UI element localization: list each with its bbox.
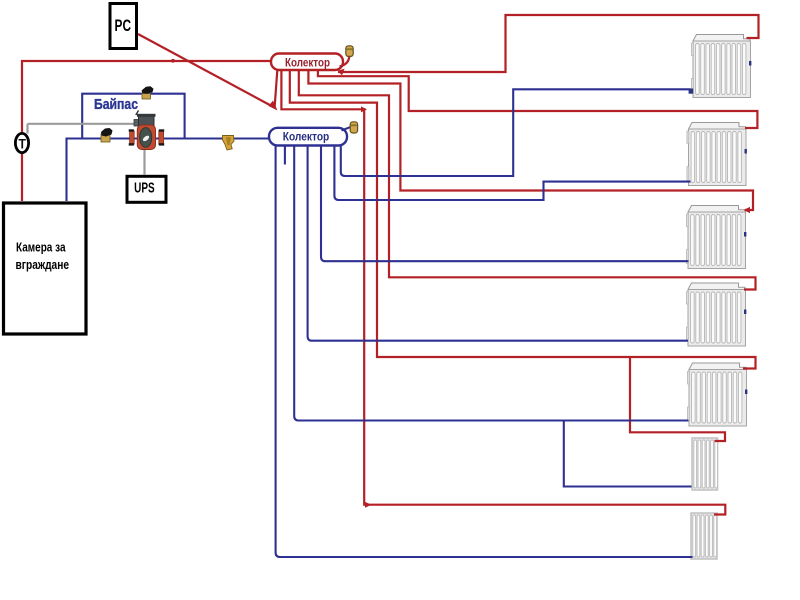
wire red feed 3 to RAD3 [308, 69, 753, 210]
svg-text:вграждане: вграждане [16, 257, 70, 272]
valve V1 black on main line [101, 128, 113, 142]
valve brass strainer [223, 136, 235, 151]
svg-text:Камера за: Камера за [16, 239, 66, 254]
wire blue return RAD1 [341, 89, 691, 176]
wire blue branch return RAD6 [564, 421, 692, 487]
label bypass [136, 111, 139, 116]
wire red feed 2 to RAD2 [318, 69, 758, 128]
wire blue return RAD3 [321, 146, 689, 262]
sensor T (thermostat) [15, 133, 28, 152]
wire blue spare stub [284, 146, 286, 165]
wire blue return RAD4 [308, 146, 688, 341]
wire grey pump to UPS cable [143, 150, 145, 175]
svg-text:Колектор: Колектор [283, 129, 330, 143]
wire red PC control line (diagonal) [138, 34, 274, 107]
valve V2 black on bypass [142, 86, 154, 99]
wire blue main pipe from boiler to collector [67, 139, 269, 202]
wire blue hook to vent valve [342, 127, 352, 131]
svg-text:Колектор: Колектор [285, 55, 330, 69]
wire red branch to RAD6 [630, 357, 725, 441]
box PC [110, 4, 137, 49]
pump P1 circulation [129, 114, 165, 150]
wire red feed 4 to RAD4 [299, 69, 756, 290]
radiator RAD5 [687, 363, 747, 426]
radiator RAD7 [691, 513, 717, 559]
wire red boiler riser and top run [22, 61, 270, 201]
collector red (supply manifold) [271, 54, 343, 71]
node flow dot on red run [171, 59, 175, 63]
node arrow into collector right [338, 69, 345, 76]
svg-text:Байпас: Байпас [94, 96, 138, 113]
node arrow at feed6 corner [361, 106, 367, 112]
svg-text:PC: PC [115, 16, 132, 35]
wire red collector stub S1 [275, 71, 278, 108]
node blue connector at RAD1 [689, 89, 694, 94]
radiator RAD4 [686, 283, 746, 346]
wire red feed 1 to RAD1 [338, 15, 759, 72]
node arrow at diagonal end [269, 101, 278, 111]
radiator RAD2 [687, 123, 747, 186]
box boiler chamber [4, 203, 87, 334]
svg-text:T: T [18, 136, 26, 152]
wire grey sensor cable T to pump [28, 124, 136, 134]
wire blue bypass loop [82, 94, 184, 139]
valve brass air vent (red collector) [346, 46, 353, 57]
wire red hook to vent valve [340, 57, 350, 67]
radiator RAD3 [686, 206, 746, 269]
radiator RAD6 [692, 438, 718, 490]
wire blue return RAD2 [334, 146, 690, 201]
radiator RAD1 [691, 35, 751, 98]
wire red feed 5 to RAD5 [290, 69, 756, 369]
collector blue (return manifold) [269, 128, 347, 146]
node arrow into RAD3 [744, 207, 751, 213]
node arrow at feed6 bottom corner [365, 502, 372, 508]
wire red feed 6 to RAD7 [281, 69, 725, 515]
wire blue return RAD5 [294, 146, 688, 421]
valve brass air vent (blue collector) [350, 122, 357, 133]
wire blue return RAD7 [276, 146, 693, 558]
svg-text:UPS: UPS [134, 180, 155, 197]
box UPS [127, 176, 166, 202]
